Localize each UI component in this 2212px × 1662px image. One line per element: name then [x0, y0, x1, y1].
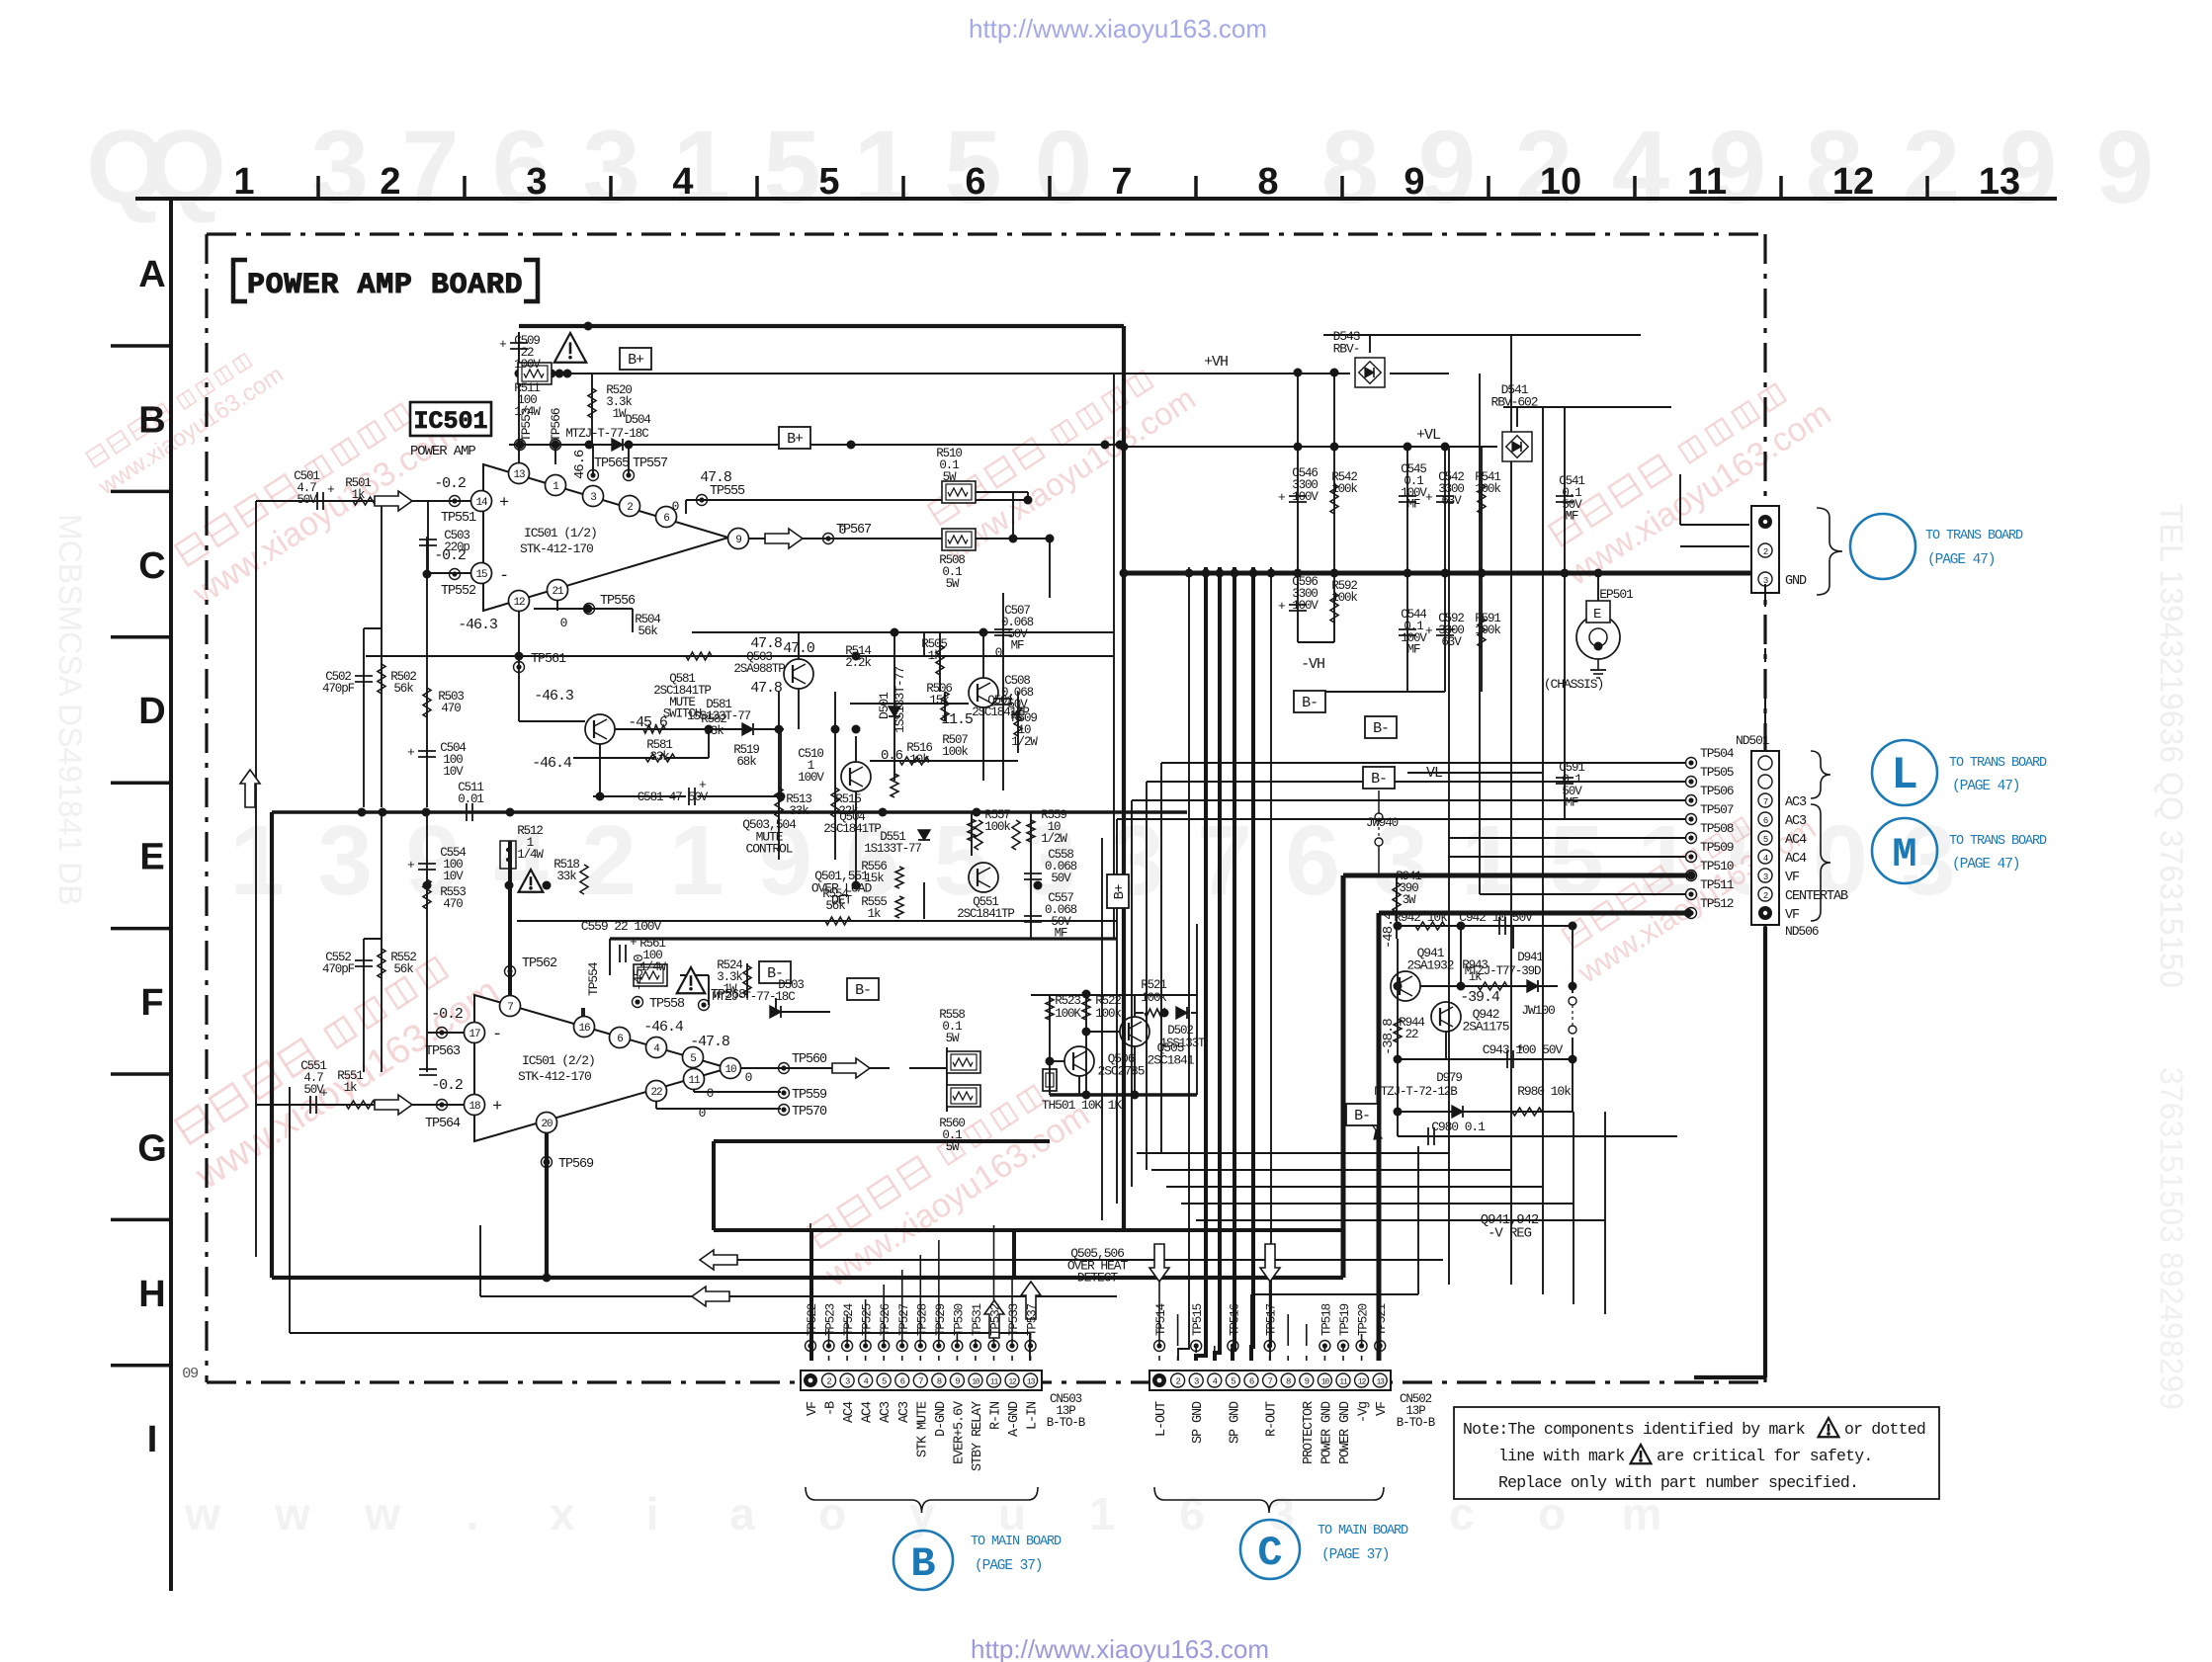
svg-text:7: 7	[918, 1377, 923, 1387]
svg-text:JW940: JW940	[1366, 816, 1399, 830]
svg-text:8: 8	[1321, 110, 1379, 225]
svg-text:11: 11	[688, 1075, 701, 1087]
svg-text:47.0: 47.0	[783, 640, 815, 657]
svg-text:15k: 15k	[864, 872, 884, 885]
svg-text:100V: 100V	[1292, 490, 1319, 504]
svg-text:B: B	[138, 399, 165, 441]
svg-text:2SC1841TP: 2SC1841TP	[957, 907, 1014, 921]
svg-text:2SA988TP: 2SA988TP	[733, 662, 785, 676]
svg-text:1/2W: 1/2W	[1041, 832, 1067, 846]
svg-text:9: 9	[735, 535, 741, 546]
svg-text:TP521: TP521	[1375, 1303, 1389, 1336]
svg-text:50V: 50V	[297, 493, 317, 507]
svg-text:L-IN: L-IN	[1026, 1401, 1041, 1430]
svg-text:CENTERTAB: CENTERTAB	[1785, 889, 1848, 904]
svg-text:are critical for safety.: are critical for safety.	[1657, 1447, 1872, 1465]
svg-text:2: 2	[1175, 1377, 1180, 1387]
svg-text:1SS133T: 1SS133T	[1160, 1037, 1206, 1050]
svg-text:-: -	[499, 567, 508, 586]
svg-text:R-OUT: R-OUT	[1265, 1401, 1280, 1437]
svg-text:E: E	[1593, 607, 1601, 623]
svg-text:TP519: TP519	[1338, 1303, 1352, 1336]
svg-text:MCBSMCSA DS491841 DB: MCBSMCSA DS491841 DB	[52, 514, 88, 906]
svg-text:L-OUT: L-OUT	[1154, 1401, 1169, 1437]
svg-text:2SC2785: 2SC2785	[1098, 1063, 1145, 1078]
svg-text:MF: MF	[1566, 796, 1578, 810]
svg-text:0: 0	[672, 499, 679, 514]
svg-text:MTZJ-T-77-18C: MTZJ-T-77-18C	[712, 990, 795, 1004]
svg-text:TP556: TP556	[600, 594, 636, 609]
svg-text:1k: 1k	[868, 907, 881, 921]
svg-text:MF: MF	[1407, 498, 1420, 512]
svg-text:12: 12	[1358, 1378, 1367, 1387]
svg-text:TO MAIN BOARD: TO MAIN BOARD	[971, 1535, 1062, 1549]
svg-text:+: +	[499, 494, 509, 513]
svg-text:100k: 100k	[984, 820, 1010, 834]
svg-text:R523: R523	[1055, 994, 1080, 1008]
svg-text:1: 1	[1089, 1488, 1115, 1539]
svg-text:B-: B-	[1373, 720, 1389, 737]
svg-text:-0.2: -0.2	[434, 475, 466, 492]
svg-text:TP525: TP525	[861, 1303, 875, 1336]
svg-text:D979: D979	[1436, 1071, 1462, 1085]
svg-text:10: 10	[1540, 161, 1581, 203]
svg-text:63V: 63V	[1441, 635, 1462, 649]
svg-text:TP560: TP560	[792, 1052, 827, 1067]
svg-text:5: 5	[1549, 805, 1604, 916]
svg-text:R980 10k: R980 10k	[1517, 1084, 1572, 1099]
svg-text:0.01: 0.01	[458, 792, 483, 806]
svg-text:6: 6	[1179, 1488, 1205, 1539]
svg-text:4: 4	[863, 1377, 868, 1387]
svg-text:F: F	[140, 982, 163, 1024]
svg-text:-VH: -VH	[1301, 656, 1324, 673]
svg-text:-Vg: -Vg	[1357, 1402, 1372, 1423]
svg-text:C581 47 50V: C581 47 50V	[638, 790, 709, 804]
svg-text:09: 09	[182, 1366, 198, 1382]
svg-text:C559 22 100V: C559 22 100V	[581, 919, 662, 934]
svg-text:8: 8	[1257, 161, 1278, 203]
svg-text:D501: D501	[877, 692, 892, 719]
svg-text:C: C	[1257, 1530, 1282, 1577]
svg-text:B-: B-	[1302, 695, 1318, 711]
svg-text:a: a	[729, 1488, 755, 1539]
svg-text:MTZJ-T77-39D: MTZJ-T77-39D	[1465, 964, 1541, 978]
svg-text:13: 13	[1376, 1378, 1385, 1387]
svg-text:TP530: TP530	[952, 1303, 966, 1336]
svg-text:2: 2	[1763, 891, 1768, 901]
svg-text:6: 6	[900, 1377, 905, 1387]
svg-text:TP563: TP563	[425, 1044, 461, 1059]
svg-text:6: 6	[663, 513, 669, 525]
svg-text:TP562: TP562	[522, 956, 557, 971]
svg-text:1SS133T-77: 1SS133T-77	[893, 667, 907, 733]
svg-text:33k: 33k	[704, 724, 723, 738]
svg-text:1/4W: 1/4W	[514, 405, 541, 419]
svg-text:TP510: TP510	[1700, 859, 1734, 873]
svg-text:1: 1	[229, 805, 285, 916]
svg-text:9: 9	[955, 1377, 960, 1387]
svg-text:4: 4	[1763, 854, 1768, 864]
svg-text:7: 7	[1111, 161, 1132, 203]
svg-text:100k: 100k	[1475, 623, 1500, 637]
svg-text:9: 9	[1418, 110, 1476, 225]
svg-text:100K: 100K	[1055, 1007, 1081, 1021]
svg-text:-0.2: -0.2	[431, 1006, 463, 1023]
svg-text:3: 3	[526, 161, 547, 203]
svg-text:AC3: AC3	[879, 1401, 893, 1423]
svg-text:2: 2	[1903, 110, 1960, 225]
svg-text:11.5: 11.5	[941, 711, 974, 728]
svg-text:or dotted: or dotted	[1844, 1420, 1925, 1439]
svg-text:TP554: TP554	[586, 961, 601, 996]
svg-text:1: 1	[233, 161, 254, 203]
svg-text:w: w	[184, 1488, 220, 1539]
svg-text:STK-412-170: STK-412-170	[518, 1069, 591, 1084]
svg-text:VF: VF	[1375, 1401, 1390, 1416]
svg-text:3: 3	[582, 110, 639, 225]
svg-text:6: 6	[965, 161, 985, 203]
svg-text:TO TRANS BOARD: TO TRANS BOARD	[1949, 756, 2047, 771]
svg-text:TP528: TP528	[915, 1303, 929, 1336]
svg-text:5: 5	[1231, 1377, 1235, 1387]
svg-text:14: 14	[475, 497, 488, 509]
svg-text:TP532: TP532	[989, 1303, 1003, 1336]
svg-text:x: x	[550, 1488, 575, 1539]
svg-text:5: 5	[690, 1053, 696, 1065]
svg-text:TP561: TP561	[531, 652, 566, 667]
svg-text:50V: 50V	[303, 1083, 324, 1097]
svg-text:12: 12	[1832, 161, 1874, 203]
svg-text:1/4W: 1/4W	[639, 960, 666, 974]
svg-text:5: 5	[763, 110, 820, 225]
svg-text:5: 5	[818, 161, 839, 203]
svg-text:(PAGE 47): (PAGE 47)	[1952, 779, 2019, 794]
svg-text:-B: -B	[824, 1401, 839, 1416]
svg-text:TP506: TP506	[1700, 784, 1734, 798]
svg-text:+VH: +VH	[1204, 354, 1228, 371]
svg-text:TP529: TP529	[934, 1303, 948, 1336]
svg-text:POWER AMP BOARD: POWER AMP BOARD	[247, 269, 523, 302]
svg-text:IC501 (2/2): IC501 (2/2)	[522, 1053, 595, 1068]
svg-text:2: 2	[380, 161, 400, 203]
svg-text:1S133T-77: 1S133T-77	[864, 842, 921, 856]
svg-text:2SA1932: 2SA1932	[1407, 957, 1454, 972]
svg-text:TP559: TP559	[792, 1088, 827, 1103]
svg-text:2: 2	[581, 805, 637, 916]
svg-text:VF: VF	[1785, 871, 1800, 885]
svg-text:2SC1841TP: 2SC1841TP	[823, 822, 881, 836]
svg-text:100k: 100k	[1475, 482, 1500, 496]
svg-text:0: 0	[560, 616, 567, 630]
svg-text:9: 9	[2096, 110, 2154, 225]
svg-text:2SC1841: 2SC1841	[1148, 1052, 1195, 1067]
svg-text:7: 7	[507, 1002, 513, 1014]
svg-text:5: 5	[882, 1377, 887, 1387]
svg-text:15k: 15k	[929, 694, 949, 707]
svg-text:5: 5	[1763, 835, 1768, 845]
svg-text:13: 13	[1027, 1378, 1036, 1387]
svg-text:15: 15	[475, 569, 487, 581]
svg-text:100k: 100k	[1141, 991, 1166, 1005]
svg-text:TP512: TP512	[1700, 896, 1734, 911]
svg-text:CONTROL: CONTROL	[746, 842, 793, 857]
svg-text:TP524: TP524	[842, 1303, 856, 1336]
svg-text:13: 13	[513, 469, 525, 481]
svg-text:12: 12	[1008, 1378, 1017, 1387]
svg-text:16: 16	[578, 1023, 590, 1035]
svg-text:TP516: TP516	[1228, 1303, 1241, 1336]
svg-text:1k: 1k	[344, 1081, 357, 1095]
svg-text:STK-412-170: STK-412-170	[520, 541, 593, 556]
svg-text:TH501 10K 1K: TH501 10K 1K	[1042, 1098, 1123, 1113]
svg-text:C943 100 50V: C943 100 50V	[1483, 1042, 1564, 1057]
svg-text:Replace only with part number: Replace only with part number specified.	[1498, 1473, 1858, 1492]
svg-text:B+: B+	[1112, 884, 1128, 899]
svg-text:TO TRANS BOARD: TO TRANS BOARD	[1925, 529, 2023, 543]
svg-text:TP570: TP570	[792, 1105, 827, 1120]
svg-text:B: B	[910, 1540, 935, 1588]
svg-text:D502: D502	[1167, 1024, 1193, 1038]
svg-text:MF: MF	[1011, 639, 1024, 653]
svg-text:TP511: TP511	[1700, 877, 1735, 892]
svg-text:POWER GND: POWER GND	[1319, 1401, 1334, 1464]
svg-text:1: 1	[854, 110, 911, 225]
svg-text:JW100: JW100	[1521, 1003, 1555, 1018]
svg-text:1k: 1k	[352, 488, 365, 502]
svg-text:0: 0	[1035, 110, 1092, 225]
svg-text:-0.2: -0.2	[434, 547, 466, 564]
svg-text:10: 10	[724, 1064, 736, 1076]
svg-text:0: 0	[699, 1106, 706, 1121]
svg-text:100k: 100k	[1331, 591, 1357, 605]
svg-text:470: 470	[443, 897, 463, 911]
svg-text:VF: VF	[1785, 908, 1800, 923]
svg-text:22: 22	[1405, 1028, 1418, 1041]
svg-text:D504: D504	[625, 413, 650, 427]
svg-text:TP537: TP537	[1026, 1303, 1040, 1336]
svg-text:B-TO-B: B-TO-B	[1397, 1416, 1436, 1430]
svg-text:TP555: TP555	[710, 484, 745, 499]
svg-text:H: H	[138, 1274, 165, 1315]
svg-text:100k: 100k	[942, 745, 968, 759]
svg-text:11: 11	[1687, 161, 1727, 203]
svg-text:470pF: 470pF	[322, 682, 355, 696]
svg-text:TP564: TP564	[425, 1117, 461, 1131]
svg-text:7: 7	[401, 110, 459, 225]
svg-text:10V: 10V	[443, 765, 464, 779]
svg-text:17: 17	[468, 1029, 480, 1040]
svg-text:1/2W: 1/2W	[1011, 735, 1038, 749]
svg-text:9: 9	[1305, 1377, 1310, 1387]
svg-text:TP565: TP565	[594, 457, 630, 471]
svg-text:R942 10k: R942 10k	[1394, 910, 1448, 925]
svg-text:AC4: AC4	[842, 1401, 857, 1423]
svg-text:8: 8	[1286, 1377, 1291, 1387]
svg-text:B-: B-	[1354, 1108, 1370, 1124]
svg-text:0: 0	[839, 523, 846, 538]
svg-text:SP GND: SP GND	[1228, 1401, 1242, 1444]
svg-text:u: u	[998, 1488, 1026, 1539]
svg-text:D: D	[138, 691, 165, 732]
svg-text:2.2k: 2.2k	[845, 656, 871, 670]
svg-text:GND: GND	[1785, 574, 1807, 589]
svg-text:STBY RELAY: STBY RELAY	[971, 1401, 985, 1471]
svg-text:TP566: TP566	[549, 408, 563, 442]
svg-text:EP501: EP501	[1599, 587, 1634, 602]
svg-text:B-TO-B: B-TO-B	[1047, 1416, 1086, 1430]
svg-text:B+: B+	[787, 431, 804, 448]
svg-text:6: 6	[1285, 805, 1340, 916]
svg-text:68k: 68k	[736, 755, 756, 769]
svg-text:TP533: TP533	[1007, 1303, 1021, 1336]
svg-text:MF: MF	[1407, 643, 1420, 657]
svg-text:9: 9	[1404, 161, 1424, 203]
svg-text:-46.3: -46.3	[534, 688, 574, 705]
svg-text:ND506: ND506	[1785, 924, 1819, 939]
svg-text:100V: 100V	[798, 771, 824, 785]
svg-text:AC3: AC3	[1785, 795, 1807, 810]
svg-text:TP558: TP558	[649, 997, 685, 1012]
svg-text:L: L	[1891, 750, 1918, 801]
svg-text:C980 0.1: C980 0.1	[1431, 1120, 1486, 1134]
svg-text:1: 1	[669, 805, 724, 916]
svg-text:11: 11	[990, 1378, 999, 1387]
svg-text:TP520: TP520	[1357, 1303, 1371, 1336]
svg-text:w: w	[274, 1488, 310, 1539]
svg-text:3: 3	[590, 492, 596, 504]
svg-text:TP515: TP515	[1191, 1303, 1205, 1336]
svg-text:-: -	[492, 1026, 501, 1044]
svg-text:+: +	[492, 1098, 502, 1117]
svg-text:TP569: TP569	[558, 1157, 594, 1172]
svg-text:47.8: 47.8	[750, 680, 783, 697]
svg-text:Q: Q	[145, 110, 226, 225]
svg-text:10V: 10V	[443, 870, 464, 883]
svg-text:100k: 100k	[1331, 482, 1357, 496]
svg-text:http://www.xiaoyu163.com: http://www.xiaoyu163.com	[969, 14, 1267, 43]
svg-text:.: .	[467, 1488, 479, 1539]
svg-text:D-GND: D-GND	[934, 1401, 949, 1437]
svg-text:E: E	[139, 837, 164, 878]
svg-text:TP557: TP557	[633, 457, 668, 471]
svg-text:AC4: AC4	[1785, 833, 1807, 848]
svg-text:o: o	[818, 1488, 846, 1539]
svg-text:22: 22	[650, 1087, 662, 1099]
svg-text:-0.2: -0.2	[431, 1077, 463, 1094]
svg-text:-38.8: -38.8	[1381, 1019, 1397, 1055]
svg-text:5W: 5W	[946, 1140, 960, 1154]
svg-text:A-GND: A-GND	[1007, 1401, 1022, 1437]
svg-text:RBV-: RBV-	[1333, 341, 1360, 356]
svg-text:IC501: IC501	[413, 407, 487, 436]
svg-text:(CHASSIS): (CHASSIS)	[1544, 677, 1603, 692]
svg-text:Note:The components identified: Note:The components identified by mark	[1463, 1420, 1806, 1439]
svg-text:3: 3	[1194, 1377, 1199, 1387]
svg-text:TP527: TP527	[897, 1303, 911, 1336]
svg-text:TP531: TP531	[971, 1303, 984, 1336]
svg-text:13: 13	[1979, 161, 2020, 203]
svg-text:56k: 56k	[638, 624, 657, 638]
svg-text:100V: 100V	[1292, 599, 1319, 613]
svg-text:470pF: 470pF	[322, 962, 355, 976]
svg-text:B-: B-	[855, 982, 871, 999]
svg-text:TEL 13943219636 QQ 376315150: TEL 13943219636 QQ 376315150	[2154, 504, 2189, 988]
svg-text:3763151503 892498299: 3763151503 892498299	[2154, 1067, 2189, 1410]
svg-text:D941: D941	[1517, 951, 1543, 964]
svg-text:4: 4	[1612, 110, 1669, 225]
svg-text:470: 470	[441, 702, 461, 715]
svg-text:TP526: TP526	[879, 1303, 893, 1336]
svg-text:(PAGE 37): (PAGE 37)	[1321, 1547, 1389, 1563]
svg-text:0: 0	[995, 645, 1002, 660]
svg-text:5W: 5W	[946, 1032, 960, 1045]
svg-text:20: 20	[541, 1119, 553, 1130]
svg-text:AC3: AC3	[1785, 814, 1807, 829]
svg-text:2SA1175: 2SA1175	[1463, 1019, 1509, 1034]
svg-text:11: 11	[1339, 1378, 1348, 1387]
svg-text:6: 6	[617, 1034, 623, 1045]
svg-text:R522: R522	[1095, 994, 1121, 1008]
svg-text:63V: 63V	[1441, 494, 1462, 508]
svg-text:G: G	[137, 1127, 167, 1169]
svg-text:3: 3	[845, 1377, 850, 1387]
svg-text:SP GND: SP GND	[1191, 1401, 1206, 1444]
svg-text:21: 21	[552, 586, 564, 598]
svg-text:6: 6	[1763, 816, 1768, 826]
svg-text:46.6: 46.6	[572, 450, 588, 479]
svg-text:-39.4: -39.4	[1460, 989, 1500, 1006]
svg-text:2: 2	[826, 1377, 831, 1387]
svg-text:MF: MF	[1055, 927, 1067, 941]
svg-text:B-: B-	[1371, 771, 1387, 788]
svg-text:TP509: TP509	[1700, 840, 1734, 855]
svg-text:line with mark: line with mark	[1498, 1447, 1625, 1465]
svg-text:1/4W: 1/4W	[517, 848, 544, 862]
svg-text:8: 8	[937, 1377, 942, 1387]
svg-text:A: A	[138, 254, 165, 295]
svg-text:IC501 (1/2): IC501 (1/2)	[524, 526, 597, 540]
svg-text:POWER AMP: POWER AMP	[410, 444, 475, 459]
svg-text:R521: R521	[1141, 978, 1166, 992]
svg-text:3: 3	[1763, 873, 1768, 882]
svg-text:TO TRANS BOARD: TO TRANS BOARD	[1949, 834, 2047, 849]
svg-text:TP507: TP507	[1700, 802, 1734, 817]
svg-text:EVER+5.6V: EVER+5.6V	[952, 1400, 967, 1464]
svg-text:TP508: TP508	[1700, 821, 1734, 836]
svg-text:5W: 5W	[943, 470, 957, 484]
svg-text:3W: 3W	[1403, 893, 1416, 907]
svg-text:10: 10	[972, 1378, 980, 1387]
svg-text:http://www.xiaoyu163.com: http://www.xiaoyu163.com	[971, 1634, 1269, 1662]
svg-text:1k: 1k	[928, 649, 941, 663]
svg-text:4: 4	[1213, 1377, 1218, 1387]
svg-text:2: 2	[1763, 547, 1768, 557]
svg-text:100V: 100V	[514, 358, 541, 372]
svg-text:RBV-602: RBV-602	[1491, 394, 1538, 409]
svg-text:3: 3	[317, 805, 373, 916]
svg-text:-47.8: -47.8	[690, 1034, 730, 1050]
svg-text:33k: 33k	[789, 804, 808, 818]
svg-text:-45.6: -45.6	[628, 714, 668, 731]
svg-text:MTZJ-T-77-18C: MTZJ-T-77-18C	[565, 427, 648, 441]
svg-text:B+: B+	[628, 352, 644, 369]
svg-text:TP552: TP552	[441, 584, 476, 599]
svg-text:(PAGE 47): (PAGE 47)	[1927, 552, 1995, 568]
svg-text:-46.4: -46.4	[532, 755, 572, 772]
svg-text:7: 7	[1267, 1377, 1272, 1387]
svg-text:C: C	[138, 545, 165, 587]
